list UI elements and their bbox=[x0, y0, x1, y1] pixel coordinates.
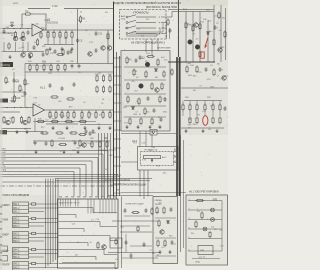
wire W26 bbox=[107, 30, 109, 64]
speck bbox=[174, 166, 175, 167]
speck bbox=[86, 95, 89, 98]
resistor R20 bbox=[43, 64, 45, 71]
wire W138 bbox=[29, 218, 30, 220]
net label ВЫХОД ЛЕВ bbox=[0, 62, 13, 67]
speck bbox=[108, 109, 111, 112]
speck bbox=[7, 66, 8, 67]
speck bbox=[135, 40, 138, 43]
speck bbox=[13, 205, 14, 206]
capacitor C10 bbox=[13, 78, 16, 83]
wire W174 bbox=[111, 199, 113, 214]
resistor R63 bbox=[161, 82, 163, 90]
speck bbox=[105, 80, 108, 83]
speck bbox=[35, 110, 38, 113]
speck bbox=[143, 214, 144, 215]
speck bbox=[200, 16, 203, 19]
resistor R44 bbox=[109, 111, 111, 119]
wire W126 bbox=[174, 156, 178, 158]
speck bbox=[93, 220, 96, 223]
edge tick bbox=[0, 213, 2, 215]
speck bbox=[30, 191, 31, 192]
speck bbox=[151, 123, 154, 126]
speck bbox=[206, 86, 209, 89]
speck bbox=[79, 152, 82, 155]
wire W66 bbox=[0, 158, 98, 197]
wire W111 bbox=[182, 111, 184, 116]
speck bbox=[156, 125, 159, 128]
wire W160 bbox=[60, 199, 62, 207]
edge tick bbox=[0, 206, 2, 208]
wire W70 bbox=[0, 172, 74, 197]
capacitor C14 bbox=[71, 64, 74, 69]
wire W155 bbox=[47, 179, 49, 267]
red highlight box bbox=[200, 52, 204, 58]
speck bbox=[95, 207, 98, 210]
speck bbox=[105, 220, 108, 223]
speck bbox=[7, 227, 8, 228]
wire W38 bbox=[50, 64, 52, 66]
speck bbox=[182, 138, 185, 141]
speck bbox=[136, 247, 139, 250]
speck bbox=[159, 173, 162, 176]
wire W73 bbox=[2, 181, 113, 183]
wire W69 bbox=[0, 168, 80, 197]
wire W61 bbox=[80, 124, 112, 126]
speck bbox=[152, 81, 155, 84]
resistor R1 bbox=[24, 13, 32, 15]
wire W78 bbox=[132, 23, 163, 33]
capacitor C15 bbox=[78, 64, 81, 69]
speck bbox=[129, 69, 132, 72]
speck bbox=[81, 76, 84, 79]
module A6.1 border bbox=[186, 195, 228, 265]
resistor R43 bbox=[102, 111, 104, 119]
capacitor C21 bbox=[139, 55, 142, 60]
speck bbox=[91, 170, 94, 173]
ground bbox=[201, 129, 204, 133]
wire W82 bbox=[161, 33, 166, 35]
speck bbox=[29, 229, 32, 232]
speck bbox=[62, 204, 63, 205]
transistor V14 bbox=[218, 48, 222, 52]
speck bbox=[142, 17, 145, 20]
ground bbox=[184, 129, 187, 133]
speck bbox=[50, 228, 53, 231]
resistor R48 bbox=[78, 120, 87, 122]
resistor R105 bbox=[195, 199, 204, 201]
speck bbox=[142, 156, 143, 157]
wire W34 bbox=[36, 64, 38, 66]
speck bbox=[125, 221, 126, 222]
speck bbox=[159, 184, 162, 187]
wire W22 bbox=[71, 39, 73, 45]
wire W41 bbox=[57, 69, 59, 72]
speck bbox=[93, 87, 96, 90]
transistor V12 bbox=[188, 40, 192, 44]
ground bbox=[168, 250, 171, 254]
wire W169 bbox=[93, 199, 95, 214]
speck bbox=[214, 47, 215, 48]
scan shading bbox=[177, 0, 228, 135]
wire W2 bbox=[64, 8, 113, 10]
speck bbox=[178, 135, 181, 138]
wire W7 bbox=[43, 29, 113, 31]
speck bbox=[151, 239, 154, 242]
scan shading bbox=[0, 195, 58, 270]
speck bbox=[103, 16, 104, 17]
capacitor C32 bbox=[130, 253, 133, 258]
speck bbox=[48, 136, 51, 139]
speck bbox=[223, 203, 224, 204]
speck bbox=[217, 21, 218, 22]
speck bbox=[45, 221, 48, 224]
speck bbox=[15, 207, 16, 208]
wire W112 bbox=[189, 101, 191, 106]
wire W172 bbox=[105, 199, 107, 214]
speck bbox=[173, 130, 174, 131]
resistor R62 bbox=[151, 82, 153, 90]
speck bbox=[42, 117, 45, 120]
capacitor C40 bbox=[135, 58, 138, 63]
resistor R15 bbox=[19, 84, 21, 92]
resistor R82 bbox=[196, 103, 198, 111]
wire W15 bbox=[53, 30, 55, 33]
speck bbox=[125, 99, 128, 102]
wire W45 bbox=[0, 111, 20, 113]
speck bbox=[172, 20, 173, 21]
capacitor C31 bbox=[125, 240, 128, 245]
wire W99 bbox=[168, 61, 215, 63]
speck bbox=[143, 141, 146, 144]
resistor R25 bbox=[102, 74, 104, 82]
ground bbox=[97, 126, 100, 130]
speck bbox=[67, 252, 68, 253]
connector X5 (ПРОИГР) bbox=[13, 262, 29, 270]
speck bbox=[92, 137, 93, 138]
red annotation arrow bbox=[205, 38, 208, 49]
speck bbox=[117, 34, 118, 35]
speck bbox=[155, 36, 156, 37]
resistor R99 bbox=[137, 225, 139, 232]
speck bbox=[173, 166, 176, 169]
transistor V10 bbox=[145, 62, 149, 66]
speck bbox=[171, 152, 172, 153]
switch contact S1 bbox=[126, 15, 156, 18]
speck bbox=[11, 168, 14, 171]
resistor R96 bbox=[131, 211, 139, 213]
speck bbox=[81, 235, 84, 238]
speck bbox=[67, 48, 70, 51]
edge tick bbox=[0, 236, 2, 238]
speck bbox=[95, 257, 96, 258]
wire W130 bbox=[147, 170, 149, 197]
speck bbox=[148, 164, 149, 165]
speck bbox=[155, 126, 158, 129]
speck bbox=[90, 203, 93, 206]
transistor V8 bbox=[6, 120, 10, 124]
speck bbox=[36, 249, 39, 252]
resistor R73 bbox=[199, 22, 201, 30]
module A4.2 border bbox=[138, 147, 179, 171]
speck bbox=[66, 252, 67, 253]
capacitor C13 bbox=[73, 82, 76, 87]
speck bbox=[218, 140, 219, 141]
wire W123 bbox=[121, 133, 150, 135]
speck bbox=[185, 62, 186, 63]
speck bbox=[79, 120, 82, 123]
transistor V1 bbox=[13, 36, 17, 40]
bus pin bbox=[114, 192, 122, 194]
wire W100 bbox=[181, 87, 228, 89]
speck bbox=[203, 129, 206, 132]
speck bbox=[98, 106, 101, 109]
wire W178 bbox=[59, 215, 77, 219]
resistor R81 bbox=[189, 103, 191, 111]
wire W114 bbox=[196, 101, 198, 106]
speck bbox=[85, 187, 86, 188]
speck bbox=[161, 119, 164, 122]
transistor V11 bbox=[139, 84, 143, 88]
diode D1 bbox=[155, 69, 158, 72]
capacitor C29 bbox=[124, 208, 127, 213]
speck bbox=[2, 147, 5, 150]
resistor R116 bbox=[163, 70, 165, 77]
wire W132 bbox=[108, 195, 153, 197]
resistor R100 bbox=[156, 206, 158, 214]
resistor R70 bbox=[151, 117, 153, 125]
wire W173 bbox=[108, 199, 110, 214]
wire W144 bbox=[29, 237, 59, 239]
wire W102 bbox=[185, 12, 187, 63]
speck bbox=[218, 73, 219, 74]
speck bbox=[101, 70, 104, 73]
speck bbox=[108, 250, 111, 253]
wire W74 bbox=[0, 176, 120, 178]
speck bbox=[101, 180, 102, 181]
resistor R28 bbox=[102, 85, 104, 93]
wire W135 bbox=[37, 203, 58, 205]
resistor R21 bbox=[50, 64, 52, 71]
speck bbox=[28, 25, 31, 28]
wire W91 bbox=[124, 93, 166, 95]
transistor V18 bbox=[222, 76, 226, 80]
speck bbox=[102, 137, 103, 138]
transistor V16 bbox=[160, 230, 164, 234]
speck bbox=[17, 59, 20, 62]
ground bbox=[215, 129, 218, 133]
resistor R46 bbox=[50, 120, 59, 122]
resistor R85 bbox=[219, 103, 221, 111]
wire W110 bbox=[182, 101, 184, 106]
wire W67 bbox=[0, 161, 92, 197]
wire W13 bbox=[47, 30, 49, 33]
speck bbox=[78, 106, 79, 107]
wire W35 bbox=[36, 69, 38, 72]
ground bbox=[76, 150, 79, 154]
wire W191 bbox=[110, 133, 112, 199]
wire W57 bbox=[88, 110, 90, 113]
resistor R36 bbox=[55, 111, 57, 119]
resistor R78 bbox=[186, 65, 188, 73]
speck bbox=[114, 73, 115, 74]
speck bbox=[130, 145, 131, 146]
resistor R109 bbox=[24, 78, 26, 86]
speck bbox=[14, 172, 17, 175]
resistor R102 bbox=[158, 219, 160, 227]
diode VD1 bbox=[211, 208, 215, 212]
speck bbox=[157, 143, 160, 146]
speck bbox=[91, 11, 94, 14]
wire W120 bbox=[219, 101, 221, 106]
speck bbox=[128, 10, 131, 13]
ground bbox=[62, 150, 65, 154]
wire W156 bbox=[50, 179, 52, 265]
speck bbox=[80, 256, 81, 257]
resistor R89 bbox=[219, 116, 221, 124]
wire W166 bbox=[77, 199, 79, 207]
speck bbox=[132, 62, 133, 63]
speck bbox=[134, 196, 137, 199]
transistor V13 bbox=[195, 45, 199, 49]
speck bbox=[27, 84, 30, 87]
resistor R103 bbox=[157, 239, 159, 247]
capacitor C4 bbox=[42, 52, 45, 57]
wire W159 bbox=[57, 179, 59, 259]
speck bbox=[156, 40, 157, 41]
speck bbox=[38, 96, 41, 99]
speck bbox=[55, 249, 58, 252]
speck bbox=[7, 172, 10, 175]
resistor R66 bbox=[159, 95, 161, 103]
speck bbox=[201, 175, 202, 176]
speck bbox=[57, 202, 58, 203]
capacitor C33 bbox=[143, 242, 146, 247]
speck bbox=[10, 100, 13, 103]
wire W143 bbox=[37, 233, 58, 235]
speck bbox=[160, 253, 161, 254]
wire W106 bbox=[213, 5, 215, 62]
speck bbox=[169, 223, 170, 224]
speck bbox=[193, 194, 194, 195]
resistor R112 bbox=[51, 139, 53, 147]
ground bbox=[148, 125, 151, 129]
speck bbox=[162, 43, 165, 46]
wire W17 bbox=[59, 30, 61, 33]
speck bbox=[18, 65, 21, 68]
speck bbox=[20, 56, 21, 57]
speck bbox=[111, 145, 112, 146]
speck bbox=[145, 211, 148, 214]
speck bbox=[132, 12, 135, 15]
speck bbox=[81, 245, 84, 248]
wire W118 bbox=[212, 101, 214, 106]
speck bbox=[31, 26, 32, 27]
speck bbox=[106, 20, 107, 21]
speck bbox=[215, 7, 218, 10]
wire W113 bbox=[189, 111, 191, 116]
capacitor C9 bbox=[95, 48, 98, 53]
resistor R92 bbox=[30, 232, 37, 234]
wire W188 bbox=[101, 133, 103, 199]
speck bbox=[34, 201, 37, 204]
speck bbox=[126, 266, 129, 269]
speck bbox=[28, 63, 29, 64]
speck bbox=[59, 37, 62, 40]
bus pin bbox=[114, 93, 122, 95]
capacitor C42 bbox=[33, 45, 36, 50]
speck bbox=[204, 85, 207, 88]
speck bbox=[84, 237, 87, 240]
speck bbox=[138, 205, 141, 208]
resistor R90 bbox=[30, 203, 37, 205]
node junction bbox=[20, 107, 21, 108]
speck bbox=[82, 83, 85, 86]
wire W84 bbox=[151, 39, 153, 56]
wire W60 bbox=[109, 110, 111, 113]
capacitor C7 bbox=[54, 49, 57, 54]
speck bbox=[88, 179, 89, 180]
speck bbox=[217, 127, 220, 130]
switch contact S2 bbox=[126, 20, 156, 23]
bus pin bbox=[114, 111, 122, 113]
speck bbox=[77, 50, 78, 51]
wire W21 bbox=[71, 30, 73, 33]
wire W86 bbox=[166, 12, 172, 18]
speck bbox=[120, 60, 123, 63]
speck bbox=[73, 251, 76, 254]
wire W62 bbox=[33, 121, 96, 123]
wire W168 bbox=[90, 199, 92, 214]
node junction bbox=[6, 107, 7, 108]
speck bbox=[146, 140, 147, 141]
speck bbox=[53, 89, 54, 90]
speck bbox=[116, 32, 119, 35]
speck bbox=[41, 161, 44, 164]
speck bbox=[68, 257, 69, 258]
speck bbox=[103, 20, 106, 23]
capacitor C35 bbox=[171, 240, 174, 245]
resistor R91 bbox=[30, 217, 37, 219]
node junction bbox=[13, 28, 14, 29]
speck bbox=[7, 176, 8, 177]
speck bbox=[207, 12, 210, 15]
bus pin bbox=[114, 147, 122, 149]
speck bbox=[210, 237, 211, 238]
resistor R61 bbox=[127, 82, 129, 90]
speck bbox=[77, 206, 80, 209]
speck bbox=[168, 10, 169, 11]
wire W12 bbox=[27, 42, 29, 52]
wire W122 bbox=[181, 127, 224, 129]
resistor R5 bbox=[47, 31, 49, 39]
speck bbox=[22, 67, 25, 70]
wire W177 bbox=[59, 208, 118, 213]
speck bbox=[207, 175, 210, 178]
speck bbox=[31, 230, 34, 233]
resistor R55 bbox=[106, 140, 108, 148]
resistor R6 bbox=[53, 31, 55, 39]
wire W139 bbox=[37, 218, 58, 220]
resistor R17 bbox=[66, 98, 74, 100]
wire W103 bbox=[192, 12, 194, 63]
speck bbox=[109, 63, 112, 66]
speck bbox=[142, 241, 143, 242]
wire W121 bbox=[219, 111, 221, 116]
switch contact S4 bbox=[126, 31, 156, 34]
wire W4 bbox=[32, 14, 46, 30]
capacitor C17 bbox=[85, 129, 88, 134]
speck bbox=[122, 116, 125, 119]
